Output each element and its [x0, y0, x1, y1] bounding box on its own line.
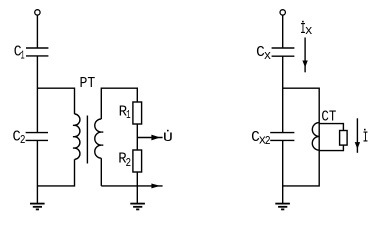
wire: [282, 15, 284, 48]
svg-text:2: 2: [126, 157, 132, 170]
resistor R2: [133, 150, 142, 172]
terminal left: [35, 10, 40, 15]
wire: [319, 145, 343, 151]
resistor R1: [133, 102, 142, 124]
dot of U: [167, 130, 169, 132]
wire bottom rail: [101, 185, 162, 187]
wire: [136, 124, 138, 150]
wire: [36, 56, 38, 133]
capacitor Cx2: [270, 132, 294, 134]
svg-text:1: 1: [21, 49, 25, 62]
wire PT primary branch: [37, 88, 74, 114]
wire: [136, 172, 138, 203]
coil cusp tick: [73, 124, 75, 126]
wire secondary loop: [101, 88, 137, 119]
arrowhead U tap: [151, 135, 160, 141]
wire CT branch: [283, 88, 320, 186]
current arrow Ix: [304, 38, 306, 73]
arrowhead I: [355, 142, 360, 149]
ground right: [275, 203, 290, 211]
capacitor C1: [26, 47, 48, 49]
svg-text:2: 2: [265, 135, 271, 148]
svg-text:2: 2: [20, 134, 26, 147]
wire CT secondary loop: [319, 124, 343, 131]
arrowhead Ix: [302, 61, 307, 68]
svg-text:x: x: [305, 23, 313, 38]
transformer PT primary winding: [75, 114, 80, 159]
ground left: [30, 203, 45, 211]
transformer PT secondary winding: [95, 119, 102, 158]
svg-text:x: x: [264, 48, 272, 63]
wire: [282, 140, 284, 203]
coil cusp tick: [73, 147, 75, 149]
capacitor C2: [26, 132, 48, 134]
transformer core: [86, 116, 88, 164]
burden resistor: [340, 131, 348, 146]
svg-text:PT: PT: [79, 76, 95, 92]
dot of Ix: [302, 21, 304, 23]
coil cusp tick: [73, 136, 75, 138]
current arrow I: [356, 118, 358, 153]
wire: [37, 159, 74, 186]
wire: [100, 158, 102, 186]
transformer CT winding: [312, 123, 319, 151]
svg-text:U: U: [163, 130, 173, 145]
coil cusp tick: [101, 144, 103, 146]
arrowhead bottom rail: [151, 184, 160, 189]
coil cusp tick: [101, 131, 103, 133]
wire output tap: [137, 137, 162, 139]
ground middle: [130, 203, 145, 211]
svg-text:CT: CT: [321, 110, 336, 126]
wire: [36, 140, 38, 203]
capacitor Cx: [272, 47, 295, 49]
svg-text:I: I: [363, 131, 369, 147]
wire: [36, 15, 38, 48]
wire: [282, 56, 284, 132]
svg-text:1: 1: [126, 109, 131, 122]
dot of I: [364, 129, 366, 131]
terminal right: [280, 10, 285, 15]
